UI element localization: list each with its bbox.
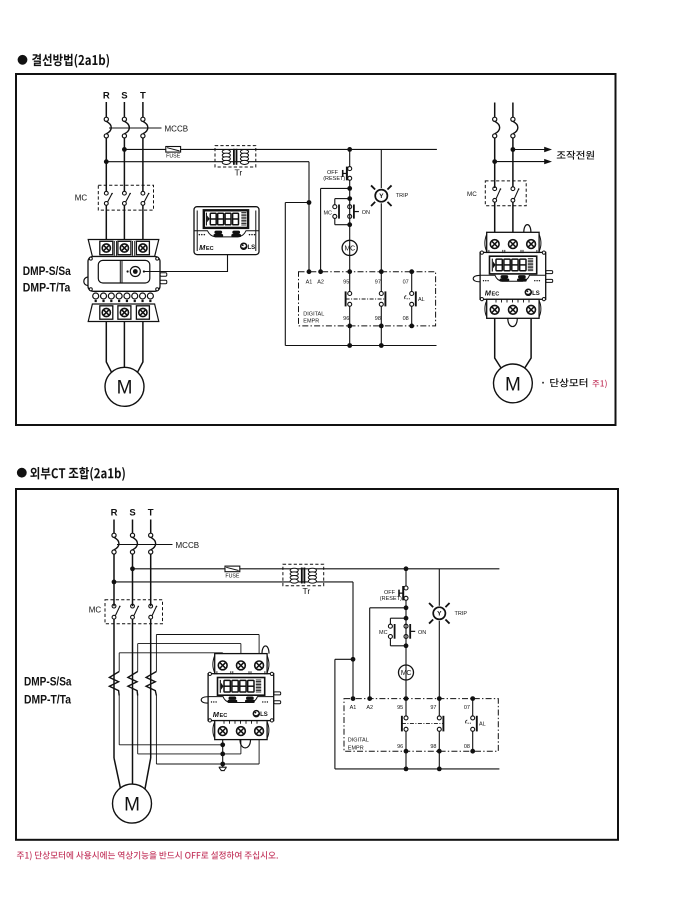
svg-text:MC: MC — [379, 630, 388, 636]
svg-text:97: 97 — [430, 705, 436, 711]
svg-text:T: T — [148, 507, 154, 518]
svg-text:·: · — [542, 377, 546, 389]
svg-text:M: M — [505, 374, 521, 395]
svg-text:96: 96 — [343, 316, 349, 322]
svg-text:97: 97 — [375, 280, 381, 286]
svg-text:08: 08 — [403, 316, 409, 322]
svg-text:(RESET): (RESET) — [380, 596, 402, 602]
svg-text:DMP-S/Sa: DMP-S/Sa — [24, 675, 72, 689]
svg-text:95: 95 — [343, 280, 349, 286]
svg-text:FUSE: FUSE — [166, 154, 181, 160]
svg-text:OFF: OFF — [384, 590, 396, 596]
svg-text:LS: LS — [532, 291, 540, 297]
svg-text:Y: Y — [379, 193, 384, 200]
svg-text:DMP-T/Ta: DMP-T/Ta — [23, 280, 71, 294]
svg-text:S: S — [129, 507, 135, 518]
svg-text:ON: ON — [362, 210, 370, 216]
svg-text:MCCB: MCCB — [165, 124, 189, 133]
svg-text:R: R — [111, 507, 118, 518]
svg-text:FUSE: FUSE — [225, 573, 240, 579]
svg-text:ON: ON — [418, 630, 426, 636]
svg-text:98: 98 — [430, 744, 436, 750]
svg-text:95: 95 — [397, 705, 403, 711]
svg-text:MC: MC — [323, 210, 332, 216]
svg-text:TRIP: TRIP — [455, 611, 468, 617]
svg-text:MC: MC — [75, 193, 88, 202]
svg-text:T: T — [140, 91, 146, 102]
svg-text:R: R — [103, 91, 110, 102]
svg-text:08: 08 — [464, 744, 470, 750]
svg-text:(RESET): (RESET) — [323, 176, 345, 182]
svg-text:AL: AL — [479, 722, 486, 728]
svg-text:MC: MC — [89, 606, 102, 615]
svg-text:DIGITAL: DIGITAL — [348, 738, 369, 744]
svg-text:EC: EC — [206, 246, 214, 252]
svg-text:A1: A1 — [350, 705, 357, 711]
svg-text:MC: MC — [345, 246, 356, 253]
svg-text:Y: Y — [437, 611, 442, 618]
svg-text:07: 07 — [403, 280, 409, 286]
svg-text:A1: A1 — [306, 280, 313, 286]
svg-text:EMPR: EMPR — [348, 746, 364, 752]
svg-text:S: S — [121, 91, 127, 102]
svg-text:DIGITAL: DIGITAL — [303, 311, 324, 317]
svg-text:07: 07 — [464, 705, 470, 711]
svg-text:EC: EC — [492, 292, 500, 298]
svg-text:LS: LS — [248, 245, 256, 251]
svg-text:AL: AL — [418, 297, 425, 303]
svg-text:A2: A2 — [317, 280, 324, 286]
svg-text:M: M — [124, 795, 140, 816]
svg-text:MC: MC — [467, 191, 477, 198]
svg-text:EMPR: EMPR — [303, 319, 319, 325]
svg-text:Tr: Tr — [302, 586, 310, 596]
svg-text:M: M — [117, 378, 133, 399]
svg-text:98: 98 — [375, 316, 381, 322]
svg-text:LS: LS — [260, 712, 268, 718]
svg-text:EC: EC — [220, 713, 228, 719]
svg-text:DMP-S/Sa: DMP-S/Sa — [23, 264, 71, 278]
svg-text:TRIP: TRIP — [396, 193, 409, 199]
svg-text:A2: A2 — [366, 705, 373, 711]
svg-text:DMP-T/Ta: DMP-T/Ta — [24, 692, 71, 706]
svg-text:Tr: Tr — [235, 167, 243, 177]
svg-text:MCCB: MCCB — [176, 541, 200, 550]
svg-text:OFF: OFF — [327, 170, 339, 176]
svg-text:MC: MC — [401, 670, 412, 677]
svg-text:96: 96 — [397, 744, 403, 750]
